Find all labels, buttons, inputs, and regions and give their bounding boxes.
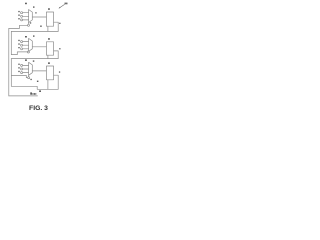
label numeral S3 bbox=[30, 79, 31, 80]
node S1 select terminal circle bbox=[28, 24, 30, 26]
label numeral B3 bbox=[48, 62, 50, 64]
wire U1 output to B1 bbox=[32, 16, 46, 18]
mux U1 input terminal A3 bbox=[21, 19, 23, 21]
wire outer-loop top horizontal to stage1 select bbox=[9, 25, 28, 28]
delay box B1 (stage 1) bbox=[46, 12, 53, 26]
wire bottom return with jog bbox=[11, 86, 58, 89]
mux U3 (stage 3 selector trapezoid) bbox=[29, 62, 33, 75]
delay box B2 (stage 2) bbox=[46, 42, 53, 55]
label numeral bottom jog bbox=[37, 81, 39, 82]
wire A3 stub bbox=[23, 19, 29, 21]
mux U3 input terminal C3t bbox=[21, 72, 23, 74]
wire B3 bottom stub bbox=[47, 80, 49, 90]
wire A2 stub bbox=[23, 15, 29, 17]
wire inter-stage bus 2 (y=58.6) bbox=[11, 58, 58, 60]
wire stage2 output right drop bbox=[54, 51, 59, 59]
wire stage1 output right drop bbox=[54, 22, 59, 31]
label numeral B2 bbox=[48, 38, 50, 40]
mux U1 (stage 1 selector trapezoid) bbox=[29, 10, 33, 23]
wire B2 bottom stub bbox=[47, 55, 49, 58]
mux U3 input terminal C1t bbox=[21, 64, 23, 66]
wire stage3 select feed bbox=[11, 75, 27, 77]
wire A1 stub bbox=[23, 12, 29, 14]
wire inner vertical B bbox=[10, 59, 12, 87]
label 30 (figure reference numeral) bbox=[65, 3, 66, 5]
label numeral stage2 out bbox=[59, 48, 60, 49]
wire B1 bottom stub bbox=[47, 26, 49, 31]
reference arrow 30 leader bbox=[59, 4, 65, 8]
label numeral A3 bbox=[18, 18, 19, 19]
label numeral bottom wire bbox=[39, 90, 41, 92]
label numeral above stage2 inputs bbox=[25, 36, 27, 38]
label Vout bbox=[30, 92, 32, 94]
mux U3 input terminal C2t bbox=[21, 68, 23, 70]
label numeral A1 bbox=[18, 11, 19, 12]
mux U2 (stage 2 selector trapezoid) bbox=[29, 38, 33, 51]
label numeral S1 bbox=[30, 22, 31, 23]
wire inter-stage bus 1 (y=31.4) bbox=[11, 30, 58, 32]
mux U2 input terminal B3t bbox=[21, 48, 23, 50]
svg-text:FIG. 3: FIG. 3 bbox=[29, 105, 48, 112]
node S2 select terminal circle bbox=[27, 51, 29, 53]
wire C3t stub bbox=[23, 72, 29, 74]
label numeral U1 top bbox=[33, 6, 35, 7]
delay box B3 (stage 3) bbox=[46, 66, 53, 80]
label numeral U2 top bbox=[33, 35, 35, 36]
mux U2 input terminal B1t bbox=[21, 41, 23, 43]
label numeral above stage1 inputs bbox=[25, 3, 27, 4]
wire U2 output to B2 bbox=[32, 46, 46, 48]
wire stage3 output right drop bbox=[54, 75, 59, 89]
wire U1 select stub bbox=[28, 23, 30, 25]
wire stage2 select feed bbox=[11, 52, 27, 55]
label numeral U3 top bbox=[33, 60, 35, 61]
label numeral bus1 bbox=[40, 26, 42, 27]
label numeral A2 bbox=[18, 15, 19, 16]
wire output lead bottom bbox=[9, 95, 38, 97]
wire U3 output to B3 bbox=[32, 70, 46, 72]
label numeral stage3 out bbox=[59, 71, 60, 72]
label numeral B2t bbox=[18, 43, 19, 44]
label numeral U1 right bbox=[35, 12, 36, 13]
mux U1 input terminal A1 bbox=[21, 12, 23, 14]
wire B2t stub bbox=[23, 44, 29, 46]
node S3 select terminal circle bbox=[28, 77, 30, 79]
label numeral C3t bbox=[18, 71, 19, 72]
wire U3 select stub bbox=[28, 75, 30, 76]
label numeral B3t bbox=[18, 47, 19, 48]
wire C2t stub bbox=[23, 68, 29, 70]
wire inner vertical A bbox=[10, 31, 12, 54]
mux U2 input terminal B2t bbox=[21, 44, 23, 46]
label numeral above stage3 inputs bbox=[25, 59, 27, 61]
label numeral stage1 out bbox=[59, 23, 60, 24]
label numeral B1 bbox=[48, 8, 50, 10]
label numeral B1t bbox=[18, 40, 19, 41]
wire outer-loop left vertical bbox=[8, 28, 10, 96]
wire C1t stub bbox=[23, 64, 29, 66]
label numeral C2t bbox=[18, 67, 19, 68]
wire B1t stub bbox=[23, 41, 29, 43]
wire B3t stub bbox=[23, 48, 29, 50]
label numeral C1t bbox=[18, 64, 19, 65]
mux U1 input terminal A2 bbox=[21, 15, 23, 17]
